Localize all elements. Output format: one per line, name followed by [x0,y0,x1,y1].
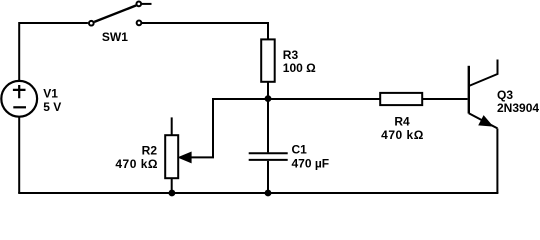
svg-text:5 V: 5 V [43,100,61,114]
svg-text:100 Ω: 100 Ω [283,61,316,75]
svg-text:R2: R2 [142,144,158,158]
capacitor C1 [249,99,288,193]
wire node to R4 [268,98,380,100]
svg-text:Q3: Q3 [497,88,513,102]
resistor R3 [261,39,275,81]
transistor Q3 [469,60,498,129]
voltage source V1 [1,81,37,117]
switch SW1 [89,2,152,26]
svg-text:C1: C1 [292,143,308,157]
wire Q3 emitter down to bottom rail [496,129,498,194]
svg-text:2N3904: 2N3904 [497,101,539,115]
wire R4 to Q3 base [422,98,467,100]
resistor R4 [380,93,422,105]
svg-text:470 kΩ: 470 kΩ [115,157,158,171]
svg-text:V1: V1 [43,87,58,101]
node C: C1 bottom on ground rail [265,190,272,197]
node B: R2 bottom on ground rail [169,190,176,197]
wire SW1 to R3 top [142,23,268,39]
wire R3 bottom to node [267,82,269,99]
svg-text:R3: R3 [283,48,299,62]
svg-text:470 µF: 470 µF [292,157,330,171]
wire bottom-left: V1 minus terminal down to ground rail [18,117,20,193]
wire node to R2 wiper [182,99,268,157]
node A: junction R3/R2/C1/R4 [265,95,272,102]
potentiometer R2 [165,117,191,193]
svg-text:SW1: SW1 [102,30,128,44]
wire top-left: V1 plus terminal up and right to SW1 [19,23,88,80]
svg-text:470 kΩ: 470 kΩ [381,128,424,142]
svg-text:R4: R4 [394,114,410,128]
wire bottom rail [18,192,498,194]
